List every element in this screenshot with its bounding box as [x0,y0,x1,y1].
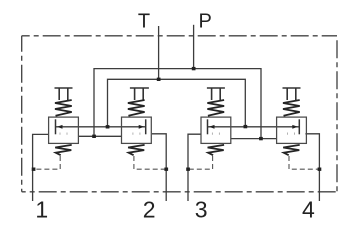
svg-text:4: 4 [302,197,315,223]
svg-text:2: 2 [143,197,156,223]
svg-text:3: 3 [195,197,208,223]
svg-text:T: T [138,11,150,33]
svg-text:P: P [199,11,212,33]
svg-text:1: 1 [35,197,48,223]
